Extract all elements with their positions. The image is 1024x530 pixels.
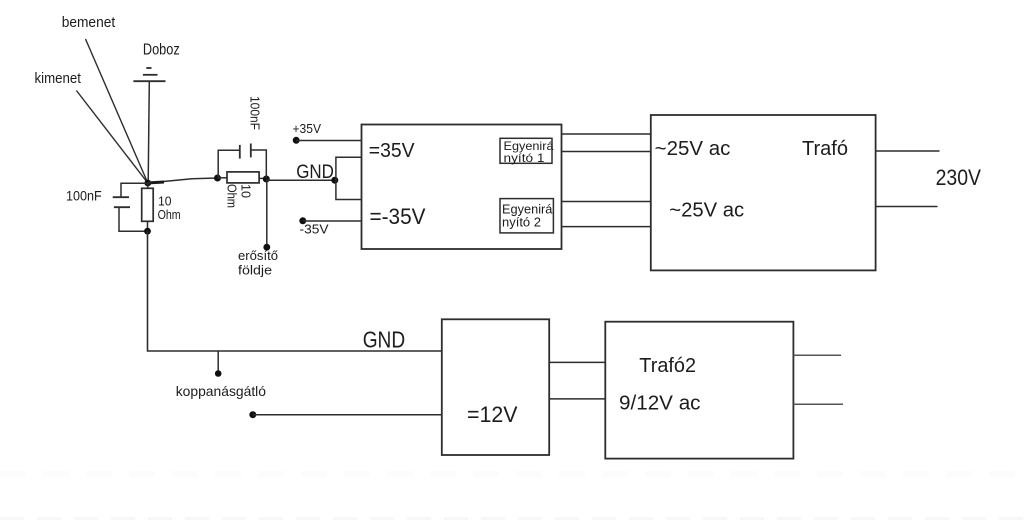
wire Trafó2 output 2: [793, 403, 843, 405]
wire Doboz ground stem: [148, 82, 149, 181]
svg-text:=35V: =35V: [369, 140, 415, 162]
wire resistor body to right node: [259, 177, 266, 179]
ground symbol Doboz (chassis): [133, 68, 165, 81]
wire capacitor bottom to lower node: [119, 207, 148, 231]
wire GND bracket: [336, 157, 362, 199]
svg-text:10: 10: [239, 184, 254, 198]
capacitor C-left bottom plate: [114, 206, 130, 208]
svg-text:Ohm: Ohm: [225, 184, 240, 208]
svg-text:9/12V ac: 9/12V ac: [619, 393, 701, 415]
wire kimenet pointer line: [76, 91, 147, 184]
wire bemenet pointer line: [86, 39, 148, 183]
wire 12V to Trafó2 line 1: [549, 361, 606, 363]
wire amplifier ground stem: [266, 179, 268, 247]
node series resistor left: [214, 175, 221, 182]
wire AC line 3: [562, 201, 651, 203]
node +35V: [293, 137, 300, 144]
svg-text:kimenet: kimenet: [35, 71, 82, 87]
wire AC line 4: [562, 226, 651, 228]
wire series resistor to GND node: [266, 179, 335, 181]
svg-text:GND: GND: [296, 162, 334, 183]
capacitor C-bypass left plate: [239, 145, 241, 159]
transformer box Trafó2: [605, 322, 793, 459]
svg-text:100nF: 100nF: [248, 96, 263, 130]
svg-text:-35V: -35V: [300, 223, 330, 237]
wire resistor bottom to lower node: [147, 221, 149, 231]
wire koppanásgátló stub: [217, 351, 219, 371]
node series resistor right: [263, 176, 270, 183]
svg-text:erősítő: erősítő: [238, 248, 278, 263]
capacitor C-bypass right plate: [250, 144, 252, 158]
node amplifier ground: [263, 244, 270, 251]
wire +35V to supply box: [296, 140, 361, 142]
wire junction to series resistor: [148, 178, 218, 183]
wire 12V feed line: [253, 414, 442, 416]
node lower junction: [144, 228, 151, 235]
node GND: [331, 177, 338, 184]
node -35V: [299, 217, 306, 224]
wire AC line 2: [562, 151, 651, 153]
svg-text:Doboz: Doboz: [143, 41, 180, 58]
resistor R-series 10 Ohm body (horizontal): [227, 172, 259, 183]
svg-text:~25V ac: ~25V ac: [655, 138, 731, 160]
wire AC line 1: [562, 133, 651, 135]
wire capacitor loop right: [251, 150, 266, 178]
svg-text:bemenet: bemenet: [62, 15, 115, 31]
wire mains line 1: [876, 150, 940, 152]
svg-text:GND: GND: [363, 327, 406, 353]
rectifier box 1: [500, 138, 552, 163]
capacitor C-left top plate: [113, 196, 129, 198]
svg-text:100nF: 100nF: [66, 188, 102, 204]
node 12V feed: [249, 411, 256, 418]
wire -35V to supply box: [303, 220, 362, 222]
svg-text:Ohm: Ohm: [158, 207, 181, 222]
svg-text:=12V: =12V: [467, 402, 518, 427]
svg-text:Trafó: Trafó: [802, 138, 848, 160]
wire capacitor loop left: [218, 150, 240, 177]
wire node to resistor body: [218, 177, 228, 179]
wire mains line 2: [876, 206, 938, 208]
svg-text:nyító 1: nyító 1: [504, 151, 545, 165]
wire 12V to Trafó2 line 2: [549, 398, 606, 400]
power supply box U1: [362, 125, 562, 250]
svg-text:földje: földje: [238, 263, 272, 278]
svg-text:Trafó2: Trafó2: [639, 355, 696, 377]
transformer box Trafó: [651, 115, 876, 270]
wire Trafó2 output 1: [793, 354, 841, 356]
svg-text:~25V ac: ~25V ac: [669, 199, 744, 221]
resistor R-left 10 Ohm body: [142, 188, 154, 221]
svg-text:+35V: +35V: [293, 122, 322, 136]
svg-text:=-35V: =-35V: [370, 204, 426, 229]
wire main ground run: [148, 231, 442, 351]
svg-text:230V: 230V: [936, 165, 982, 190]
node koppanásgátló: [215, 370, 222, 377]
node main junction: [144, 180, 151, 187]
12V supply box: [442, 319, 549, 455]
wire ink blob at junction: [151, 181, 164, 185]
wire junction to capacitor top: [121, 183, 148, 197]
svg-text:koppanásgátló: koppanásgátló: [176, 383, 267, 399]
rectifier box 2: [500, 199, 553, 233]
svg-text:nyító 2: nyító 2: [502, 215, 541, 230]
wire junction to resistor top: [147, 183, 149, 188]
faint scan noise band: [0, 474, 1024, 519]
